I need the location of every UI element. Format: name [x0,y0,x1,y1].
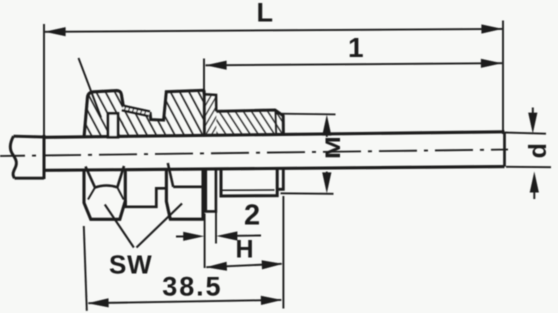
dimension 2 (washer thickness) [176,213,261,269]
label SW with leaders [105,204,182,248]
svg-text:M: M [321,136,345,159]
nut shoulder band (chamfer with tick hatching) [122,106,150,116]
dimension H [206,196,283,309]
sealing washer lower view [206,168,216,211]
dimension d (rod diameter) [505,108,551,200]
dimension L [44,21,503,136]
leader line to clamp ring (top left) [79,58,102,118]
svg-text:L: L [257,0,274,28]
dimension M (thread size) [276,114,336,194]
centerline (dash-dot axis) [0,150,508,157]
union nut upper section (hatched) [84,91,124,138]
svg-text:1: 1 [348,32,364,63]
svg-text:H: H [236,236,254,264]
clamp ring visible edge (white sliver) [108,113,118,137]
sealing washer upper section (hatched, item 2) [205,94,217,135]
thread root line [223,189,275,191]
svg-text:38.5: 38.5 [162,272,222,302]
threaded section upper (hatched) [216,110,283,135]
probe rod bottom edge [44,167,505,171]
collar between nuts lower view [126,188,167,207]
svg-text:SW: SW [109,250,152,280]
rod step face at left (under L extension) [43,135,46,179]
union nut lower view (hex SW) [84,166,125,219]
threaded section lower view [221,168,283,197]
rod left broken end (break block) [10,136,44,178]
probe rod top edge [44,132,505,138]
dimension 1 [204,59,502,91]
body hex lower view (hex SW) [166,163,203,219]
body upper section incl. hex boss (hatched) [122,90,204,137]
rod right end face [503,132,506,167]
end tip lower [277,168,283,190]
svg-text:2: 2 [244,200,260,232]
dimension 38,5 [84,226,281,311]
svg-text:d: d [524,143,552,158]
